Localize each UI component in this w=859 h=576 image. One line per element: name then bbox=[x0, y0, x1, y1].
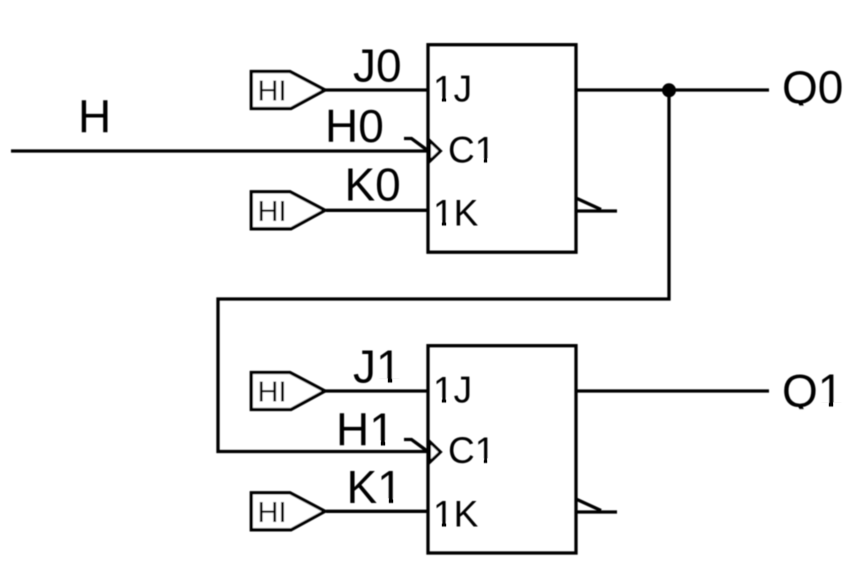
svg-text:HI: HI bbox=[258, 377, 287, 409]
svg-text:H0: H0 bbox=[325, 100, 384, 152]
svg-text:K1: K1 bbox=[347, 461, 403, 513]
svg-text:Q1: Q1 bbox=[782, 365, 843, 417]
svg-text:HI: HI bbox=[258, 196, 287, 228]
svg-text:H1: H1 bbox=[336, 403, 395, 455]
svg-text:1K: 1K bbox=[433, 493, 479, 534]
svg-text:HI: HI bbox=[258, 497, 287, 529]
svg-text:Q0: Q0 bbox=[782, 61, 843, 113]
svg-text:C1: C1 bbox=[448, 430, 495, 471]
svg-text:1K: 1K bbox=[433, 192, 479, 233]
svg-text:J0: J0 bbox=[353, 40, 402, 92]
svg-text:1J: 1J bbox=[433, 369, 472, 410]
svg-text:1J: 1J bbox=[433, 68, 472, 109]
svg-text:K0: K0 bbox=[345, 159, 401, 211]
svg-text:H: H bbox=[78, 91, 111, 143]
svg-text:J1: J1 bbox=[353, 341, 402, 393]
svg-text:HI: HI bbox=[258, 76, 287, 108]
